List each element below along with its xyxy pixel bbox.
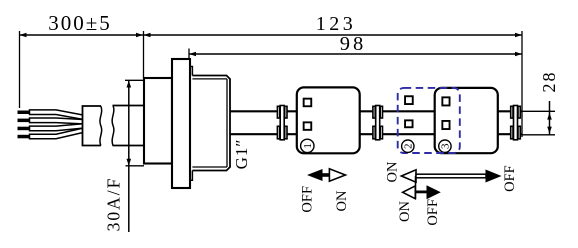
- wire 3: [30, 124, 84, 131]
- cable break wave 2: [112, 106, 114, 146]
- svg-text:OFF: OFF: [502, 165, 518, 192]
- retaining clip B right of float 1: [373, 106, 383, 140]
- float 2 switch square top: [405, 96, 413, 104]
- cable sheath piece 2: [113, 106, 145, 146]
- cable gland block: [144, 78, 172, 164]
- float 1 switch square top: [304, 99, 312, 107]
- dim 30A/F vertical line: [127, 81, 132, 233]
- dim line 300±5: [20, 33, 144, 38]
- float 2 travel black arrow right: [427, 185, 441, 199]
- float 3 switch square top: [442, 97, 449, 105]
- float 3 number circle: [439, 140, 451, 152]
- float 2 travel black shaft: [416, 191, 428, 194]
- svg-text:300±5: 300±5: [48, 11, 112, 35]
- svg-text:2: 2: [402, 143, 414, 149]
- svg-text:123: 123: [316, 13, 357, 35]
- svg-text:OFF: OFF: [300, 186, 316, 213]
- dim line 98: [189, 52, 522, 57]
- wire tip 3: [18, 127, 30, 131]
- svg-text:ON: ON: [397, 201, 413, 222]
- wire 4: [30, 128, 84, 139]
- svg-text:1: 1: [302, 143, 314, 149]
- extension line at body joint: [143, 31, 145, 78]
- retaining clip C right of float 3: [511, 106, 521, 140]
- svg-text:3: 3: [439, 143, 451, 149]
- neck top step: [190, 67, 192, 181]
- float 1 body: [297, 87, 360, 153]
- svg-text:ON: ON: [385, 161, 401, 182]
- wire tip 2: [18, 119, 30, 123]
- svg-text:98: 98: [340, 33, 367, 55]
- float 3 long travel white arrow left: [401, 170, 416, 182]
- thread body G1: [192, 76, 230, 171]
- float 2 switch square bottom: [405, 120, 413, 127]
- extension tick block bottom: [126, 165, 145, 167]
- float 2 travel white arrow left: [403, 186, 416, 199]
- wire tip 4: [18, 135, 30, 139]
- float 1 switch square bottom: [304, 122, 312, 130]
- dim 28 vertical line: [547, 101, 552, 135]
- svg-text:OFF: OFF: [425, 199, 441, 226]
- extension tick block top: [125, 79, 144, 81]
- magnet reference vertical line: [415, 176, 417, 199]
- stem segment float 3 to end: [498, 111, 522, 134]
- float 1 travel arrow white right: [329, 169, 345, 181]
- extension tick at flange face: [188, 49, 190, 59]
- float 3 long travel shaft: [416, 174, 486, 178]
- stem end extension lines for dim 28: [522, 111, 555, 135]
- svg-text:28: 28: [539, 71, 559, 93]
- wire 1: [30, 110, 84, 120]
- float 3 body: [435, 88, 498, 153]
- extension line left (cable end): [19, 31, 21, 108]
- hex flange: [172, 59, 190, 188]
- wire tip 1: [18, 111, 30, 115]
- stem segment thread to float 1: [230, 111, 297, 134]
- wire 2: [30, 118, 84, 124]
- cable sheath piece 1: [83, 106, 102, 146]
- stem segment float 1 to float 3: [360, 111, 435, 134]
- svg-text:G1″: G1″: [232, 139, 251, 170]
- float 1 number circle: [301, 139, 314, 152]
- retaining clip A left of float 1: [277, 106, 287, 140]
- float 1 travel arrow black left: [307, 169, 331, 181]
- extension line right end: [521, 31, 523, 137]
- float 3 long travel black arrow right: [486, 170, 502, 183]
- dim line 123: [144, 33, 523, 38]
- float 2 dashed position box: [398, 88, 460, 153]
- svg-text:ON: ON: [334, 190, 350, 211]
- float 2 number circle: [402, 140, 414, 152]
- float 3 switch square bottom: [442, 121, 449, 129]
- cable break wave 1: [100, 106, 102, 146]
- svg-text:30A/F: 30A/F: [104, 177, 124, 232]
